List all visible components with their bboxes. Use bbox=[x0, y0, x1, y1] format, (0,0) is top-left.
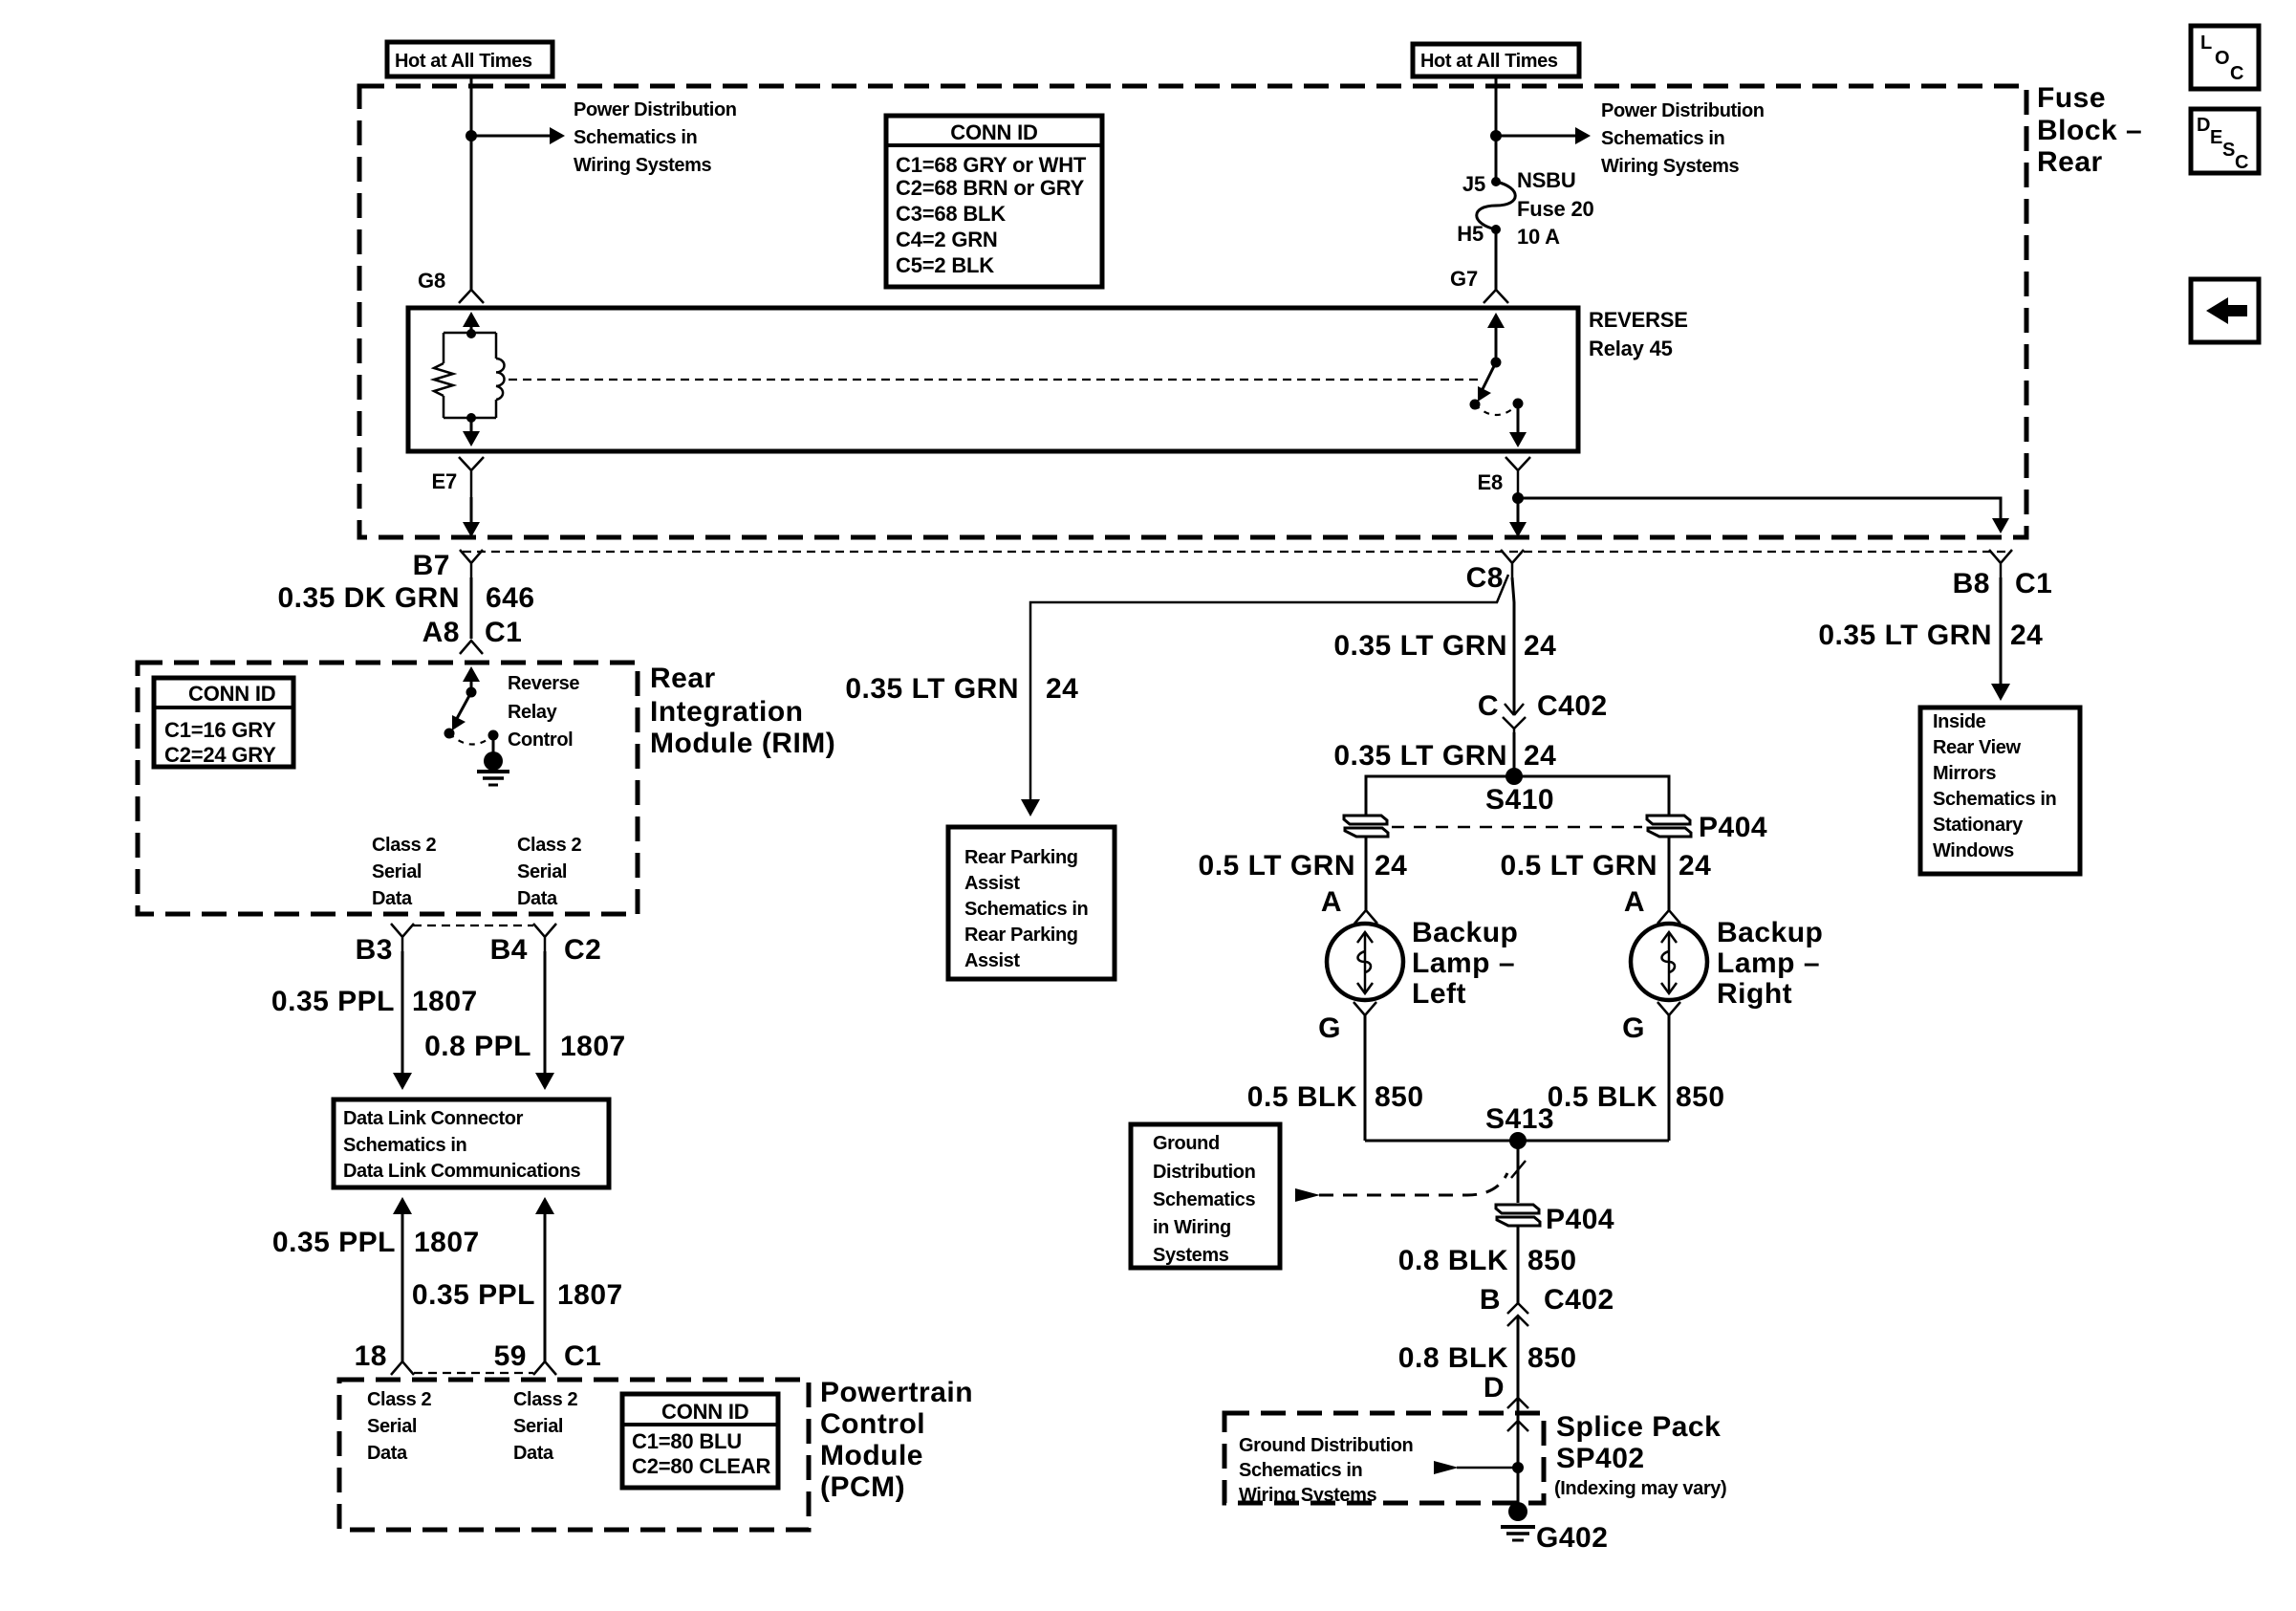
svg-text:C1=68 GRY or WHT: C1=68 GRY or WHT bbox=[896, 153, 1087, 177]
svg-text:L: L bbox=[2200, 33, 2212, 54]
wire branch from C8 to rear parking assist bbox=[1030, 575, 1508, 803]
svg-text:Control: Control bbox=[508, 729, 573, 751]
svg-text:0.35 PPL: 0.35 PPL bbox=[272, 1227, 396, 1258]
svg-text:Schematics in: Schematics in bbox=[964, 899, 1088, 920]
svg-text:Mirrors: Mirrors bbox=[1933, 763, 1996, 784]
svg-text:B7: B7 bbox=[413, 550, 450, 581]
svg-text:Systems: Systems bbox=[1153, 1245, 1229, 1266]
svg-text:Reverse: Reverse bbox=[508, 673, 579, 694]
wire C402 to S410 bbox=[1513, 732, 1516, 776]
ground G402 bbox=[1508, 1502, 1527, 1521]
svg-text:0.8 BLK: 0.8 BLK bbox=[1398, 1342, 1508, 1374]
Ground Distribution box (upper) bbox=[1131, 1124, 1280, 1268]
svg-text:C2=80 CLEAR: C2=80 CLEAR bbox=[632, 1454, 770, 1478]
svg-text:B4: B4 bbox=[490, 934, 528, 966]
svg-text:850: 850 bbox=[1375, 1081, 1424, 1113]
svg-text:C2: C2 bbox=[564, 934, 601, 966]
Inside Rear View Mirrors box bbox=[1920, 708, 2080, 874]
relay outline box REVERSE Relay 45 bbox=[408, 308, 1578, 451]
svg-text:D: D bbox=[2197, 115, 2210, 136]
svg-text:18: 18 bbox=[355, 1340, 387, 1372]
wire: left feed from Hot at All Times to relay bbox=[470, 76, 473, 290]
svg-text:24: 24 bbox=[2010, 620, 2043, 651]
wire up-arrow into DLC box (right) bbox=[535, 1197, 554, 1214]
svg-text:Class 2: Class 2 bbox=[372, 835, 437, 856]
svg-text:Wiring Systems: Wiring Systems bbox=[1601, 156, 1740, 177]
fuse NSBU Fuse 20 10A bbox=[1491, 177, 1501, 186]
svg-text:24: 24 bbox=[1524, 740, 1556, 772]
relay coil terminal arrow down bbox=[470, 418, 473, 435]
resistor R (relay suppression) bbox=[434, 363, 453, 396]
svg-text:C1=80 BLU: C1=80 BLU bbox=[632, 1429, 742, 1453]
svg-text:CONN ID: CONN ID bbox=[950, 120, 1038, 144]
CONN ID box (PCM) bbox=[622, 1394, 778, 1488]
svg-text:24: 24 bbox=[1524, 630, 1556, 662]
svg-text:Ground Distribution: Ground Distribution bbox=[1239, 1435, 1413, 1456]
node: junction on left feed bbox=[466, 130, 477, 142]
svg-text:1807: 1807 bbox=[557, 1279, 623, 1311]
svg-text:C: C bbox=[2235, 152, 2248, 173]
wire B4 down to DLC box bbox=[544, 951, 547, 1075]
Data Link Connector box bbox=[334, 1099, 609, 1187]
grommet left (body pass-through) bbox=[1344, 816, 1388, 837]
svg-text:S: S bbox=[2222, 140, 2235, 161]
svg-text:Schematics in: Schematics in bbox=[343, 1135, 466, 1156]
svg-text:Data: Data bbox=[367, 1443, 408, 1464]
svg-text:Assist: Assist bbox=[964, 950, 1020, 971]
svg-text:24: 24 bbox=[1679, 850, 1711, 882]
svg-text:C1: C1 bbox=[2015, 568, 2052, 599]
svg-text:Rear View: Rear View bbox=[1933, 737, 2021, 758]
svg-text:0.5 BLK: 0.5 BLK bbox=[1548, 1081, 1657, 1113]
relay switch common arrow up bbox=[1495, 323, 1498, 362]
svg-text:CONN ID: CONN ID bbox=[188, 682, 276, 706]
svg-text:24: 24 bbox=[1375, 850, 1407, 882]
svg-text:C1=16 GRY: C1=16 GRY bbox=[164, 718, 276, 742]
svg-text:Schematics: Schematics bbox=[1153, 1189, 1255, 1210]
relay switch output arrow down bbox=[1517, 403, 1520, 437]
svg-text:Control: Control bbox=[820, 1408, 925, 1440]
svg-text:Serial: Serial bbox=[513, 1416, 563, 1437]
grommet right P404 bbox=[1647, 816, 1691, 837]
svg-text:0.35 LT GRN: 0.35 LT GRN bbox=[845, 673, 1019, 705]
wire to right lamp, pin A bbox=[1668, 837, 1671, 910]
svg-text:C1: C1 bbox=[564, 1340, 601, 1372]
svg-text:Power Distribution: Power Distribution bbox=[1601, 100, 1765, 121]
ground (RIM internal) bbox=[492, 735, 495, 754]
svg-text:Splice Pack: Splice Pack bbox=[1556, 1411, 1721, 1443]
break tick bbox=[1511, 1161, 1526, 1178]
svg-text:S410: S410 bbox=[1485, 784, 1554, 816]
grommet P404 (ground) bbox=[1496, 1205, 1540, 1226]
svg-text:Rear: Rear bbox=[2037, 146, 2103, 178]
svg-text:Data: Data bbox=[372, 888, 413, 909]
svg-text:0.35 LT GRN: 0.35 LT GRN bbox=[1333, 630, 1507, 662]
back-arrow legend box bbox=[2191, 279, 2259, 342]
pin G (right) bbox=[1657, 1002, 1680, 1015]
svg-text:C5=2 BLK: C5=2 BLK bbox=[896, 253, 994, 277]
svg-text:Windows: Windows bbox=[1933, 840, 2014, 861]
svg-text:Fuse 20: Fuse 20 bbox=[1517, 197, 1594, 221]
DESC legend box bbox=[2191, 109, 2259, 173]
svg-text:646: 646 bbox=[486, 582, 535, 614]
svg-text:850: 850 bbox=[1527, 1245, 1577, 1276]
svg-text:G: G bbox=[1622, 1012, 1645, 1044]
svg-text:Data Link Connector: Data Link Connector bbox=[343, 1108, 524, 1129]
svg-text:Data: Data bbox=[513, 1443, 554, 1464]
svg-text:Schematics in: Schematics in bbox=[1933, 789, 2056, 810]
svg-text:1807: 1807 bbox=[560, 1031, 626, 1062]
svg-text:C1: C1 bbox=[485, 617, 522, 648]
svg-text:Module (RIM): Module (RIM) bbox=[650, 728, 835, 759]
backup lamp left bbox=[1327, 924, 1403, 1000]
svg-text:Right: Right bbox=[1717, 978, 1792, 1010]
svg-text:Distribution: Distribution bbox=[1153, 1162, 1255, 1183]
in-line connector dashed line C1/C2 row bbox=[463, 551, 2007, 553]
wire into splice pack bbox=[1507, 1421, 1528, 1431]
svg-text:E7: E7 bbox=[431, 469, 457, 493]
svg-text:0.8 PPL: 0.8 PPL bbox=[424, 1031, 531, 1062]
svg-text:Data: Data bbox=[517, 888, 558, 909]
svg-text:E: E bbox=[2210, 127, 2222, 148]
pin E8 bbox=[1505, 457, 1530, 492]
svg-text:Ground: Ground bbox=[1153, 1133, 1220, 1154]
svg-text:0.35 DK GRN: 0.35 DK GRN bbox=[277, 582, 460, 614]
pin C8 bbox=[1501, 550, 1524, 577]
CONN ID box (RIM) bbox=[154, 678, 293, 767]
svg-text:Integration: Integration bbox=[650, 696, 804, 728]
svg-text:B8: B8 bbox=[1953, 568, 1990, 599]
wire: right feed from Hot at All Times bbox=[1495, 76, 1498, 182]
wire: arrow to Power Distribution (left) bbox=[471, 135, 552, 138]
svg-text:Hot at All Times: Hot at All Times bbox=[395, 51, 532, 72]
fuse block dashed box: Fuse Block - Rear bbox=[359, 86, 2026, 537]
svg-text:24: 24 bbox=[1046, 673, 1078, 705]
wire E8 down through fuse block edge bbox=[1517, 492, 1520, 526]
svg-text:Backup: Backup bbox=[1412, 917, 1518, 948]
svg-text:O: O bbox=[2215, 48, 2229, 69]
relay coil terminal arrow up bbox=[470, 322, 473, 335]
svg-text:A8: A8 bbox=[422, 617, 460, 648]
svg-text:NSBU: NSBU bbox=[1517, 168, 1576, 192]
svg-text:SP402: SP402 bbox=[1556, 1443, 1645, 1474]
svg-text:S413: S413 bbox=[1485, 1103, 1554, 1135]
svg-text:Schematics in: Schematics in bbox=[1601, 128, 1724, 149]
svg-text:REVERSE: REVERSE bbox=[1589, 308, 1688, 332]
svg-text:C8: C8 bbox=[1466, 562, 1504, 594]
svg-text:1807: 1807 bbox=[414, 1227, 480, 1258]
svg-text:Module: Module bbox=[820, 1440, 923, 1471]
svg-text:Rear Parking: Rear Parking bbox=[964, 925, 1078, 946]
dashed pass-through link bbox=[1392, 826, 1642, 829]
RIM reverse relay control switch bbox=[470, 677, 473, 692]
svg-text:G: G bbox=[1318, 1012, 1341, 1044]
svg-text:Left: Left bbox=[1412, 978, 1466, 1010]
dashed reference pointer to ground wire bbox=[1319, 1173, 1507, 1195]
svg-text:C3=68 BLK: C3=68 BLK bbox=[896, 202, 1006, 226]
svg-text:in Wiring: in Wiring bbox=[1153, 1217, 1231, 1238]
splice S410 bbox=[1505, 768, 1523, 785]
svg-text:Serial: Serial bbox=[372, 861, 422, 882]
PCM dashed box bbox=[339, 1380, 809, 1530]
svg-text:0.8 BLK: 0.8 BLK bbox=[1398, 1245, 1508, 1276]
svg-text:Lamp –: Lamp – bbox=[1412, 947, 1515, 979]
svg-text:E8: E8 bbox=[1477, 470, 1503, 494]
svg-text:Schematics in: Schematics in bbox=[1239, 1460, 1362, 1481]
reference arrow inside splice pack bbox=[1434, 1461, 1459, 1474]
wire: arrow to Power Distribution (right) bbox=[1496, 135, 1577, 138]
wire up-arrow into DLC box (left) bbox=[393, 1197, 412, 1214]
wire S413 down bbox=[1517, 1141, 1520, 1203]
svg-text:Relay 45: Relay 45 bbox=[1589, 337, 1673, 360]
wire to left lamp, pin A bbox=[1365, 837, 1368, 910]
wire grommet to B C402 bbox=[1517, 1226, 1520, 1303]
svg-text:0.35 LT GRN: 0.35 LT GRN bbox=[1333, 740, 1507, 772]
CONN ID box (fuse block) bbox=[886, 116, 1102, 287]
wire below fuse bbox=[1495, 229, 1498, 290]
svg-text:G7: G7 bbox=[1450, 267, 1478, 291]
svg-text:P404: P404 bbox=[1699, 812, 1767, 843]
svg-text:C4=2 GRN: C4=2 GRN bbox=[896, 228, 998, 251]
svg-text:C2=68 BRN or GRY: C2=68 BRN or GRY bbox=[896, 176, 1085, 200]
Splice Pack dashed box bbox=[1224, 1413, 1544, 1503]
wire right lamp to S413 bbox=[1668, 1015, 1671, 1141]
pin G (left) bbox=[1354, 1002, 1376, 1015]
splice S413 bbox=[1365, 1140, 1669, 1143]
svg-text:CONN ID: CONN ID bbox=[661, 1400, 749, 1424]
svg-text:0.5 LT GRN: 0.5 LT GRN bbox=[1501, 850, 1657, 882]
relay coil + resistor parallel pair bbox=[434, 329, 505, 423]
svg-text:1807: 1807 bbox=[412, 986, 478, 1017]
svg-text:Class 2: Class 2 bbox=[517, 835, 582, 856]
dashed link coil to switch bbox=[509, 379, 1483, 381]
svg-text:Rear: Rear bbox=[650, 663, 716, 694]
Hot at All Times box (left) bbox=[387, 42, 552, 76]
pin B7 bbox=[460, 550, 483, 577]
svg-text:Powertrain: Powertrain bbox=[820, 1377, 973, 1408]
svg-text:850: 850 bbox=[1676, 1081, 1725, 1113]
svg-text:0.35 PPL: 0.35 PPL bbox=[271, 986, 395, 1017]
svg-text:C: C bbox=[2230, 63, 2243, 84]
svg-text:Relay: Relay bbox=[508, 702, 558, 723]
RIM dashed box bbox=[138, 663, 638, 914]
wire C8 main down bbox=[1512, 577, 1514, 715]
node: E8 junction bbox=[1512, 492, 1524, 504]
svg-text:Backup: Backup bbox=[1717, 917, 1823, 948]
pin E7 bbox=[459, 457, 484, 497]
pin B8 / C1 bbox=[1989, 550, 2012, 577]
svg-text:0.35 PPL: 0.35 PPL bbox=[412, 1279, 535, 1311]
coil L (relay winding) bbox=[496, 359, 505, 400]
wire E7 down to RIM connector bbox=[470, 497, 473, 526]
svg-text:A: A bbox=[1624, 886, 1645, 918]
svg-text:G402: G402 bbox=[1536, 1522, 1608, 1554]
svg-text:0.5 LT GRN: 0.5 LT GRN bbox=[1199, 850, 1355, 882]
Rear Parking Assist box bbox=[948, 827, 1115, 979]
svg-text:D: D bbox=[1484, 1372, 1505, 1404]
relay switch blade bbox=[1480, 362, 1496, 395]
LOC legend box bbox=[2191, 26, 2259, 89]
wire left lamp to S413 bbox=[1364, 1015, 1367, 1141]
svg-text:850: 850 bbox=[1527, 1342, 1577, 1374]
wire B8 to mirrors box bbox=[2000, 577, 2003, 687]
svg-text:C402: C402 bbox=[1544, 1284, 1614, 1316]
wire B3 down to DLC box bbox=[401, 951, 404, 1075]
svg-text:Schematics in: Schematics in bbox=[574, 127, 697, 148]
svg-text:Stationary: Stationary bbox=[1933, 815, 2024, 836]
svg-text:C: C bbox=[1478, 690, 1499, 722]
svg-text:G8: G8 bbox=[418, 269, 445, 293]
svg-text:Wiring Systems: Wiring Systems bbox=[1239, 1485, 1377, 1506]
pins B3 / B4 / C2 with connector dashes bbox=[413, 925, 533, 926]
svg-text:B3: B3 bbox=[356, 934, 393, 966]
svg-text:Power Distribution: Power Distribution bbox=[574, 99, 737, 120]
svg-text:B: B bbox=[1480, 1284, 1501, 1316]
svg-text:Block –: Block – bbox=[2037, 115, 2142, 146]
svg-text:P404: P404 bbox=[1546, 1204, 1614, 1235]
backup lamp right bbox=[1631, 924, 1707, 1000]
svg-text:0.35 LT GRN: 0.35 LT GRN bbox=[1818, 620, 1992, 651]
svg-text:Hot at All Times: Hot at All Times bbox=[1420, 51, 1558, 72]
wire E8 branch to B8 bbox=[1518, 498, 2001, 522]
dashed throw arc bbox=[1475, 404, 1518, 415]
svg-text:Rear Parking: Rear Parking bbox=[964, 847, 1078, 868]
svg-text:Serial: Serial bbox=[367, 1416, 417, 1437]
svg-text:Inside: Inside bbox=[1933, 711, 1986, 732]
svg-text:C402: C402 bbox=[1537, 690, 1608, 722]
svg-text:0.5 BLK: 0.5 BLK bbox=[1247, 1081, 1357, 1113]
svg-text:(PCM): (PCM) bbox=[820, 1471, 905, 1503]
wire to splice pack bbox=[1517, 1317, 1520, 1512]
svg-text:59: 59 bbox=[494, 1340, 527, 1372]
svg-text:H5: H5 bbox=[1457, 222, 1484, 246]
svg-text:Serial: Serial bbox=[517, 861, 567, 882]
svg-text:Assist: Assist bbox=[964, 873, 1020, 894]
svg-text:Class 2: Class 2 bbox=[367, 1389, 432, 1410]
svg-text:Class 2: Class 2 bbox=[513, 1389, 578, 1410]
svg-text:Data Link Communications: Data Link Communications bbox=[343, 1161, 580, 1182]
svg-text:J5: J5 bbox=[1462, 172, 1485, 196]
svg-text:Wiring Systems: Wiring Systems bbox=[574, 155, 712, 176]
svg-text:(Indexing may vary): (Indexing may vary) bbox=[1554, 1478, 1726, 1499]
svg-text:A: A bbox=[1321, 886, 1342, 918]
svg-text:10 A: 10 A bbox=[1517, 225, 1560, 249]
wire B7 to A8 bbox=[470, 577, 473, 639]
Hot at All Times box (right) bbox=[1413, 44, 1579, 76]
node: junction on right feed bbox=[1490, 130, 1502, 142]
svg-text:C2=24 GRY: C2=24 GRY bbox=[164, 743, 276, 767]
svg-text:Fuse: Fuse bbox=[2037, 82, 2106, 114]
svg-text:Lamp –: Lamp – bbox=[1717, 947, 1820, 979]
